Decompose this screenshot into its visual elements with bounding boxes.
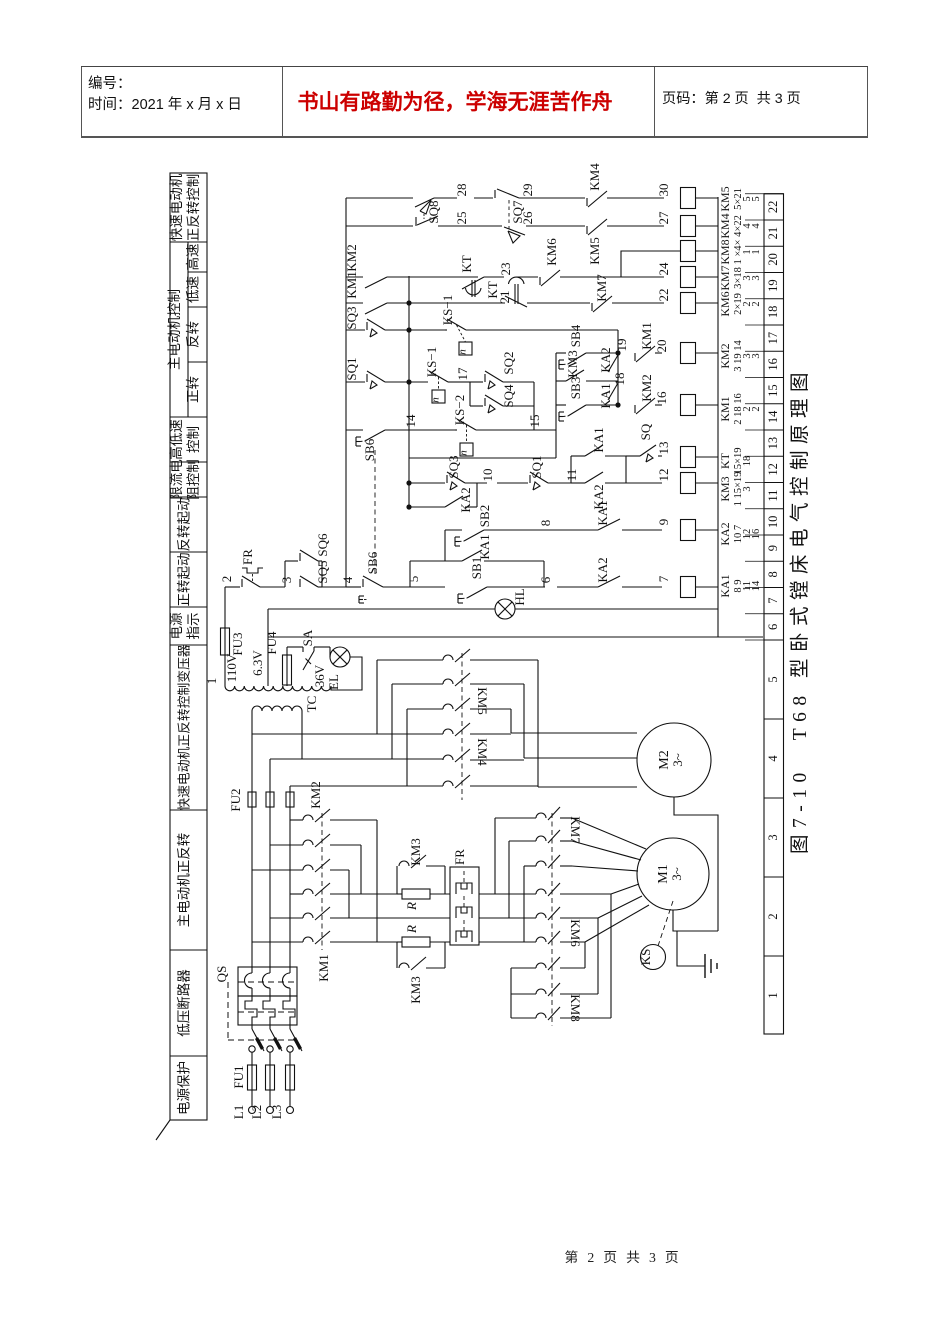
thermal relay FR NC contact bbox=[242, 576, 260, 587]
svg-text:n: n bbox=[458, 450, 470, 456]
wire bbox=[313, 647, 315, 651]
svg-text:高低速: 高低速 bbox=[168, 419, 184, 460]
wire rung 14 bbox=[556, 404, 566, 406]
wire branch to KM8 coil bbox=[621, 251, 681, 277]
circuit breaker QS linkage bbox=[227, 982, 229, 1040]
linkage dashed bbox=[551, 813, 553, 1026]
contactor NC interlock KM7 contact bbox=[591, 303, 593, 311]
coil KM1 bbox=[681, 395, 696, 416]
pushbutton SB6 (NO contact) bbox=[365, 430, 385, 441]
svg-text:18: 18 bbox=[612, 373, 627, 386]
svg-text:KM6: KM6 bbox=[568, 919, 583, 947]
svg-text:3~: 3~ bbox=[670, 753, 685, 767]
svg-text:高速: 高速 bbox=[185, 244, 201, 271]
svg-text:10: 10 bbox=[480, 469, 495, 482]
svg-text:KA2: KA2 bbox=[458, 487, 473, 512]
svg-text:KM4: KM4 bbox=[475, 738, 490, 766]
svg-text:SA: SA bbox=[300, 629, 315, 646]
svg-text:SB6: SB6 bbox=[365, 551, 380, 574]
contactor KM4 main contacts bbox=[443, 729, 453, 734]
svg-text:20: 20 bbox=[654, 340, 669, 353]
pushbutton SB4 (start reverse) bbox=[568, 353, 586, 364]
wire: KM8 star point bracket bbox=[510, 968, 512, 1018]
svg-text:110V: 110V bbox=[224, 653, 239, 682]
svg-text:25: 25 bbox=[454, 212, 469, 225]
svg-text:FR: FR bbox=[452, 849, 467, 865]
svg-text:15: 15 bbox=[766, 384, 780, 397]
svg-text:L2: L2 bbox=[249, 1105, 264, 1119]
svg-text:TC: TC bbox=[304, 696, 319, 713]
svg-text:SQ6: SQ6 bbox=[315, 533, 330, 557]
svg-text:16: 16 bbox=[766, 358, 780, 371]
wire rung 19 bbox=[409, 276, 478, 278]
svg-text:6: 6 bbox=[538, 576, 553, 583]
svg-text:6: 6 bbox=[766, 624, 780, 630]
linkage dashed bbox=[374, 450, 376, 574]
contactor NC interlock KM6 contact bbox=[539, 277, 541, 285]
svg-text:KM8: KM8 bbox=[718, 239, 732, 264]
earth ground symbol bbox=[704, 954, 706, 978]
sub divider for main-motor-control cells bbox=[187, 242, 189, 417]
svg-text:4: 4 bbox=[766, 755, 780, 762]
svg-text:KA1: KA1 bbox=[595, 500, 610, 525]
svg-text:19: 19 bbox=[614, 339, 629, 352]
wire bbox=[346, 429, 363, 431]
svg-text:KA1: KA1 bbox=[591, 427, 606, 452]
limit switch SQ3 contact (rail to sub-rail) bbox=[346, 329, 365, 331]
svg-text:KA2: KA2 bbox=[718, 522, 732, 545]
svg-text:FU4: FU4 bbox=[264, 631, 279, 655]
svg-text:3~: 3~ bbox=[669, 867, 684, 881]
svg-text:主电动机正反转: 主电动机正反转 bbox=[177, 833, 192, 928]
speed relay KS-1 contact (upper) bbox=[445, 329, 447, 331]
svg-text:13: 13 bbox=[656, 442, 671, 455]
wire: M2 frame to earth bbox=[674, 797, 718, 931]
contactor aux contact KM3 bbox=[566, 370, 584, 381]
svg-text:5: 5 bbox=[751, 196, 762, 201]
wire bbox=[224, 655, 226, 686]
svg-text:L3: L3 bbox=[269, 1105, 284, 1119]
wire: phase jogs for KM5 bank bbox=[376, 660, 378, 734]
svg-text:18: 18 bbox=[742, 456, 753, 467]
coil KM5 bbox=[681, 188, 696, 209]
wire: control neutral rail (line 0 bus) bbox=[717, 197, 719, 637]
limit switch SQ6 contact bbox=[285, 560, 298, 562]
terminal L1 bbox=[249, 1107, 256, 1114]
wire 14 bbox=[385, 429, 455, 431]
svg-text:27: 27 bbox=[656, 211, 671, 225]
svg-text:L1: L1 bbox=[231, 1105, 246, 1119]
svg-text:6.3V: 6.3V bbox=[250, 650, 265, 676]
coil KM6 bbox=[681, 293, 696, 314]
wire 12 bbox=[626, 482, 662, 484]
fuse FU1 bbox=[248, 1065, 257, 1090]
svg-text:R: R bbox=[404, 925, 419, 934]
relay contact KA1 holding (parallel branch) bbox=[410, 560, 462, 562]
limit switch SQ7 (upper contact, wire 29) bbox=[494, 190, 496, 198]
wire rung 22 bbox=[346, 197, 413, 199]
contactor KM6 main contacts bbox=[536, 889, 546, 894]
wire: KM8 to winding taps bbox=[560, 967, 585, 969]
svg-text:KM3: KM3 bbox=[565, 350, 580, 377]
svg-text:n: n bbox=[430, 397, 442, 403]
svg-text:KM5: KM5 bbox=[475, 687, 490, 714]
svg-text:KM1: KM1 bbox=[718, 396, 732, 421]
svg-text:KM4: KM4 bbox=[718, 213, 732, 238]
svg-text:R: R bbox=[404, 902, 419, 911]
svg-text:SB3: SB3 bbox=[568, 377, 583, 399]
wire bbox=[617, 353, 619, 405]
svg-text:KM6: KM6 bbox=[718, 291, 732, 316]
wire bbox=[533, 382, 535, 430]
svg-text:KM7: KM7 bbox=[594, 274, 609, 302]
coil KA1 bbox=[681, 577, 696, 598]
limit switch SQ8 (upper contact, wire 28) bbox=[415, 198, 434, 207]
svg-text:KM2: KM2 bbox=[639, 374, 654, 401]
relay contact KA2 holding bbox=[445, 496, 463, 507]
wire: feeder to start buttons bbox=[555, 353, 557, 458]
svg-text:8: 8 bbox=[538, 520, 553, 527]
transformer TC secondary winding bbox=[225, 686, 331, 691]
svg-text:SQ3: SQ3 bbox=[446, 455, 461, 478]
svg-text:28: 28 bbox=[454, 184, 469, 197]
section label dividers bbox=[170, 241, 207, 243]
svg-text:12: 12 bbox=[766, 463, 780, 476]
relay contact KA1 (aux) bbox=[608, 383, 618, 400]
transformer TC primary winding bbox=[252, 706, 302, 711]
svg-text:21: 21 bbox=[766, 227, 780, 240]
wire bbox=[301, 711, 303, 759]
svg-text:3: 3 bbox=[766, 834, 780, 840]
svg-text:3: 3 bbox=[279, 577, 294, 584]
time relay KT delayed contact (NO) bbox=[462, 277, 484, 289]
wire bbox=[625, 456, 627, 483]
wire: KA1/KA2 parallel bracket bbox=[570, 456, 572, 483]
svg-text:26: 26 bbox=[520, 211, 535, 225]
svg-text:5: 5 bbox=[406, 576, 421, 583]
svg-text:电源保护: 电源保护 bbox=[177, 1061, 192, 1115]
svg-text:4: 4 bbox=[340, 576, 355, 583]
svg-text:KS−1: KS−1 bbox=[440, 295, 455, 325]
svg-text:17: 17 bbox=[766, 332, 780, 345]
svg-text:图7-10 T68 型卧式镗床电气控制原理图: 图7-10 T68 型卧式镗床电气控制原理图 bbox=[789, 366, 811, 854]
circuit breaker QS magnetic box bbox=[238, 967, 297, 996]
wire bbox=[251, 1052, 253, 1065]
svg-text:正反转控制: 正反转控制 bbox=[186, 174, 201, 242]
circuit breaker QS trip elements bbox=[251, 967, 253, 973]
wire: staircase taps to KM7 bank bbox=[494, 818, 496, 894]
wire rung 21 bbox=[346, 225, 413, 227]
svg-text:24: 24 bbox=[656, 262, 671, 276]
svg-text:正转起动: 正转起动 bbox=[177, 553, 192, 607]
header table bbox=[81, 66, 868, 138]
contactor NC interlock KM5 contact bbox=[546, 225, 585, 227]
svg-text:KM2: KM2 bbox=[344, 244, 359, 271]
coil KT bbox=[681, 447, 696, 468]
wire bbox=[534, 429, 556, 431]
wire bbox=[251, 711, 253, 734]
svg-text:SQ4: SQ4 bbox=[501, 384, 516, 408]
coil KM2 bbox=[681, 343, 696, 364]
wire rung 17 bbox=[409, 329, 445, 331]
svg-text:8: 8 bbox=[766, 571, 780, 577]
switch SA bbox=[302, 647, 304, 652]
coil KM7 bbox=[681, 267, 696, 288]
wire 2 bbox=[225, 586, 240, 588]
lamp EL bbox=[330, 647, 350, 667]
circuit breaker QS linkage dashes bbox=[238, 981, 297, 983]
svg-text:KM3: KM3 bbox=[718, 476, 732, 501]
svg-text:阻控制: 阻控制 bbox=[186, 459, 201, 500]
svg-text:快速电动机: 快速电动机 bbox=[169, 173, 184, 241]
svg-text:13: 13 bbox=[766, 437, 780, 450]
svg-text:16: 16 bbox=[751, 529, 762, 540]
svg-text:EL: EL bbox=[326, 674, 341, 690]
contactor KM2 main contacts bbox=[303, 815, 313, 820]
ruler cell borders bbox=[764, 639, 784, 641]
svg-text:KS−1: KS−1 bbox=[424, 347, 439, 377]
contactor KM8 star contacts bbox=[536, 963, 546, 968]
wire bbox=[462, 381, 470, 383]
svg-text:KM7: KM7 bbox=[568, 816, 583, 844]
svg-text:2: 2 bbox=[751, 406, 762, 411]
svg-text:3: 3 bbox=[751, 353, 762, 358]
svg-text:KA1: KA1 bbox=[718, 574, 732, 597]
svg-text:FR: FR bbox=[240, 549, 255, 565]
wire: KM4/KM5 outputs to motor M2 bbox=[470, 708, 511, 710]
wire rung 15 bbox=[409, 381, 428, 383]
wire bbox=[251, 1090, 253, 1107]
pushbutton SB6 (NC) bbox=[346, 586, 361, 588]
svg-text:KT: KT bbox=[718, 452, 732, 469]
wire rung 11 bbox=[409, 482, 445, 484]
svg-text:电源: 电源 bbox=[169, 612, 184, 640]
wire: SQ5/SQ6 parallel bracket bbox=[284, 561, 286, 587]
svg-text:KM3: KM3 bbox=[408, 838, 423, 865]
limit switch SQ1 second contact bbox=[497, 482, 528, 484]
relay contact KA1 bbox=[585, 445, 603, 456]
linkage dashed bbox=[321, 813, 323, 950]
wire: motor M1 leads bbox=[560, 817, 572, 819]
svg-text:低速: 低速 bbox=[186, 276, 201, 303]
wire: M2 leads bbox=[511, 732, 637, 734]
svg-text:SB6: SB6 bbox=[362, 438, 377, 461]
svg-text:KM1: KM1 bbox=[316, 954, 331, 981]
wire: M1 to earth bbox=[673, 910, 718, 931]
pushbutton SB1 (start) bbox=[467, 587, 487, 598]
svg-text:18: 18 bbox=[766, 306, 780, 319]
wire rung 10 bbox=[409, 506, 445, 508]
circuit breaker QS blades bbox=[251, 1025, 253, 1029]
svg-text:SQ1: SQ1 bbox=[344, 357, 359, 380]
svg-text:KS: KS bbox=[638, 949, 653, 966]
svg-text:反转: 反转 bbox=[186, 321, 201, 348]
speed relay KS-2 contact bbox=[455, 429, 457, 431]
time relay KT delayed contact (NC) bbox=[509, 277, 525, 284]
cross reference cell dividers bbox=[745, 639, 764, 641]
svg-text:16: 16 bbox=[654, 391, 669, 405]
wire: phase taps into KM1/KM2 bbox=[290, 819, 303, 821]
svg-text:SB4: SB4 bbox=[568, 324, 583, 347]
wire: output lines toward resistors/FR bbox=[361, 893, 397, 895]
svg-text:17: 17 bbox=[455, 367, 470, 381]
node: sub-rail bus bbox=[408, 276, 410, 507]
svg-text:5: 5 bbox=[766, 676, 780, 682]
svg-text:KS−2: KS−2 bbox=[452, 395, 467, 425]
svg-text:22: 22 bbox=[766, 201, 780, 214]
wire 6.3V return bbox=[268, 636, 718, 638]
svg-text:KT: KT bbox=[459, 255, 474, 272]
svg-text:SQ: SQ bbox=[638, 423, 653, 440]
svg-text:2: 2 bbox=[751, 301, 762, 306]
svg-text:1: 1 bbox=[204, 678, 219, 685]
motor M2 bbox=[637, 723, 711, 797]
svg-text:KM3: KM3 bbox=[408, 976, 423, 1003]
svg-text:指示: 指示 bbox=[186, 613, 201, 640]
contactor aux contact KM2 (rail to sub-rail) bbox=[346, 276, 363, 278]
svg-text:FU2: FU2 bbox=[228, 788, 243, 811]
svg-text:SQ5: SQ5 bbox=[315, 560, 330, 583]
speed relay KS-1 contact (lower) bbox=[429, 371, 448, 382]
coil KM4 bbox=[681, 216, 696, 237]
svg-text:29: 29 bbox=[520, 184, 535, 197]
svg-text:KA1: KA1 bbox=[598, 383, 613, 408]
contactor NC interlock KM4 contact bbox=[546, 197, 585, 199]
relay contact KA2 bbox=[571, 482, 585, 484]
relay contact KA2 (aux) bbox=[608, 355, 618, 372]
svg-text:36V: 36V bbox=[312, 664, 327, 687]
svg-text:KM1: KM1 bbox=[344, 271, 359, 298]
relay contact KA1 interlock bbox=[557, 529, 598, 531]
svg-text:控制: 控制 bbox=[186, 426, 201, 453]
svg-text:14: 14 bbox=[403, 414, 418, 428]
svg-text:3: 3 bbox=[751, 275, 762, 280]
relay contact KA2 interlock bbox=[557, 586, 598, 588]
svg-text:KM6: KM6 bbox=[544, 238, 559, 266]
fuse FU4 bbox=[286, 685, 288, 686]
wire: holding branch verticals bbox=[409, 561, 411, 587]
wire: FR outputs bbox=[479, 893, 536, 895]
svg-text:反转起动: 反转起动 bbox=[177, 498, 192, 552]
limit switch SQ8 (lower NC contact, wire 25) bbox=[415, 217, 417, 226]
wire bbox=[331, 657, 362, 690]
svg-text:KM2: KM2 bbox=[718, 343, 732, 368]
contactor NC interlock KM2 contact bbox=[634, 405, 636, 413]
coil KM8 bbox=[681, 241, 696, 262]
resistor R (lower) bbox=[397, 941, 402, 943]
svg-text:7: 7 bbox=[766, 598, 780, 604]
wire: KM3 aux contact branch bbox=[556, 380, 566, 382]
limit switch SQ2 contact bbox=[470, 381, 483, 383]
svg-text:14: 14 bbox=[766, 410, 780, 423]
svg-text:9: 9 bbox=[656, 519, 671, 526]
svg-text:限流电: 限流电 bbox=[169, 459, 184, 500]
svg-text:SQ3: SQ3 bbox=[344, 306, 359, 329]
wire: control hot rail (line 1 bus) bbox=[345, 198, 347, 587]
contactor KM1 main contacts bbox=[303, 889, 313, 894]
column ruler frame bbox=[764, 194, 784, 1034]
wire bbox=[267, 609, 269, 686]
fuse FU2 bbox=[248, 792, 256, 807]
svg-text:FU3: FU3 bbox=[230, 632, 245, 655]
svg-text:10: 10 bbox=[766, 516, 780, 529]
wire rung 6 bbox=[268, 608, 495, 610]
limit switch SQ7 (lower contact, wire 26) bbox=[504, 227, 525, 235]
svg-text:14: 14 bbox=[751, 580, 762, 591]
svg-text:KA1: KA1 bbox=[477, 534, 492, 559]
svg-text:KM2: KM2 bbox=[308, 781, 323, 808]
limit switch SQ4 contact bbox=[470, 405, 483, 407]
svg-text:2: 2 bbox=[766, 913, 780, 919]
pushbutton SB2 bbox=[445, 529, 462, 531]
wire bbox=[286, 647, 288, 655]
limit switch SQ contact bbox=[626, 455, 640, 457]
svg-text:KM4: KM4 bbox=[587, 163, 602, 191]
svg-text:正转: 正转 bbox=[186, 376, 201, 403]
coil KA2 bbox=[681, 520, 696, 541]
svg-text:KM5: KM5 bbox=[587, 237, 602, 264]
wire 1 bbox=[224, 587, 226, 628]
svg-text:HL: HL bbox=[512, 588, 527, 605]
svg-text:19: 19 bbox=[766, 279, 780, 292]
svg-text:22: 22 bbox=[656, 289, 671, 302]
svg-text:9: 9 bbox=[766, 545, 780, 551]
svg-text:SQ1: SQ1 bbox=[529, 455, 544, 478]
svg-text:KA2: KA2 bbox=[598, 347, 613, 372]
linkage dashed KS to M1 bbox=[658, 901, 673, 946]
svg-text:KM7: KM7 bbox=[718, 265, 732, 290]
resistor R (upper) bbox=[397, 893, 402, 895]
svg-text:12: 12 bbox=[656, 469, 671, 482]
svg-text:30: 30 bbox=[656, 184, 671, 197]
thermal overload FR heaters bbox=[450, 867, 479, 945]
svg-text:15: 15 bbox=[527, 415, 542, 428]
wire rung 16 bbox=[556, 352, 566, 354]
contactor KM7 main contacts bbox=[536, 813, 546, 818]
svg-text:SB1: SB1 bbox=[469, 557, 484, 579]
wire: KM1/KM2 output crossover bbox=[330, 819, 377, 821]
motor M1 bbox=[637, 838, 709, 910]
svg-text:1: 1 bbox=[766, 992, 780, 998]
section label column outer border bbox=[170, 173, 207, 1120]
svg-text:20: 20 bbox=[766, 253, 780, 266]
pushbutton SB3 (start forward) bbox=[568, 405, 586, 416]
limit switch SQ3 second contact bbox=[447, 472, 465, 483]
svg-text:3: 3 bbox=[742, 486, 753, 491]
svg-text:23: 23 bbox=[498, 263, 513, 276]
svg-text:KM1: KM1 bbox=[639, 322, 654, 349]
terminal L2 bbox=[267, 1107, 274, 1114]
contactor aux contact KM1 (rail to sub-rail) bbox=[346, 302, 363, 304]
svg-text:4: 4 bbox=[751, 223, 762, 229]
svg-text:21: 21 bbox=[497, 291, 512, 304]
corner tick bbox=[156, 1120, 170, 1140]
svg-text:1: 1 bbox=[751, 249, 762, 254]
contactor KM5 main contacts bbox=[443, 655, 453, 660]
contactor NC interlock KM1 contact bbox=[634, 353, 636, 361]
svg-text:7: 7 bbox=[656, 575, 671, 582]
linkage dashed bbox=[461, 653, 463, 800]
svg-text:SQ2: SQ2 bbox=[501, 351, 516, 374]
svg-text:SB2: SB2 bbox=[477, 505, 492, 527]
contactor KM3 bypass contact (upper) bbox=[396, 866, 398, 894]
circuit breaker QS thermal box bbox=[238, 996, 297, 1025]
svg-text:主电动机控制: 主电动机控制 bbox=[167, 289, 182, 370]
limit switch SQ1 contact (rail to sub-rail) bbox=[346, 381, 365, 383]
speed relay sensor KS bbox=[641, 945, 666, 970]
limit switch SQ5 contact bbox=[300, 576, 318, 587]
svg-text:低压断路器: 低压断路器 bbox=[177, 969, 192, 1037]
